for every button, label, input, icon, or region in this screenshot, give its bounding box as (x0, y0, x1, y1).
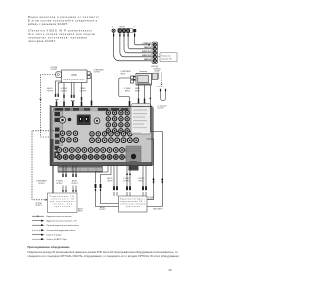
connector labels top (112, 26, 135, 28)
svg-text:S VIDEO: S VIDEO (56, 181, 63, 183)
svg-text:INPUT: INPUT (108, 181, 113, 183)
svg-text:COMPONENT: COMPONENT (121, 71, 131, 73)
svg-text:Тюнер каб.: Тюнер каб. (161, 55, 171, 57)
bottom labels row 1 (36, 180, 78, 185)
TV note box (48, 193, 78, 213)
ring jack C (94, 118, 100, 124)
vcr cable labels (107, 177, 145, 182)
top paragraph text (28, 15, 100, 43)
jacks row B left (60, 138, 77, 142)
svg-text:S VIDEO: S VIDEO (124, 88, 131, 90)
svg-text:COMPONENT: COMPONENT (36, 181, 47, 183)
DVD output labels (47, 87, 87, 92)
svg-text:OUTPUT: OUTPUT (71, 183, 78, 185)
svg-text:приставки: приставки (54, 206, 70, 208)
svg-text:INPUT: INPUT (135, 90, 140, 92)
DVD player box (62, 70, 88, 83)
svg-text:приставка SCART.: приставка SCART. (28, 39, 56, 43)
dashed arrow from scart adaptor (158, 73, 164, 87)
svg-text:Присоединяемое оборудование: Присоединяемое оборудование (28, 245, 71, 249)
digital section column (53, 112, 63, 146)
lower-left edge strip + rects (50, 139, 54, 166)
svg-text:INPUT: INPUT (125, 90, 130, 92)
svg-text:S VIDEO: S VIDEO (61, 88, 68, 90)
panel top dark band (53, 108, 130, 112)
component output label + DVD side tabs (87, 69, 104, 107)
svg-text:OUTPUT: OUTPUT (36, 205, 42, 207)
svg-text:Кабель S видео: Кабель S видео (47, 235, 63, 237)
svg-text:OUTPUT: OUTPUT (123, 181, 130, 183)
component input label + TV side tabs (119, 71, 134, 107)
svg-text:спутник. ТВ: спутник. ТВ (161, 59, 172, 61)
wire row labels (142, 43, 152, 61)
panel foot (58, 166, 103, 173)
svg-text:кабель с разъемом SCART.: кабель с разъемом SCART. (28, 22, 68, 26)
arrow cables into note box (63, 166, 76, 191)
svg-text:COMPONENT: COMPONENT (94, 69, 104, 71)
svg-text:VIDEO INPUT: VIDEO INPUT (153, 209, 163, 211)
svg-text:OUTPUT: OUTPUT (99, 209, 106, 211)
svg-text:Телевизор: Телевизор (139, 71, 147, 73)
input jack column (152, 42, 158, 63)
svg-text:S: S (112, 26, 113, 28)
TV cables into panel (139, 85, 145, 107)
panel bottom band (51, 162, 152, 166)
svg-text:S VIDEO: S VIDEO (138, 178, 145, 180)
svg-text:Видео монитора и разъемов от с: Видео монитора и разъемов от соответст (28, 15, 100, 19)
speaker terminal plate (131, 104, 151, 135)
DVD cables into panel (56, 81, 82, 107)
panel front face (51, 107, 152, 166)
arrow on first wire (149, 44, 151, 46)
svg-text:VIDEO IN: VIDEO IN (144, 47, 152, 49)
svg-text:проигрыватель: проигрыватель (64, 79, 85, 81)
panel left edge (50, 105, 52, 166)
svg-text:INPUT: INPUT (78, 211, 83, 213)
jacks row A right (90, 132, 132, 136)
right foot nub (129, 166, 139, 171)
jacks row A left (60, 131, 77, 135)
svg-text:Видеосигнальные кабели: Видеосигнальные кабели (47, 216, 73, 218)
svg-text:Прямой видеосигнальный кабель: Прямой видеосигнальный кабель (47, 224, 79, 227)
COMPON-SCART adaptor (153, 68, 162, 79)
svg-text:со звуковым: со звуковым (158, 105, 167, 107)
dense jack row 1 (57, 148, 131, 153)
svg-text:COMPON.: COMPON. (153, 68, 161, 70)
RCA cluster grid (106, 111, 129, 133)
svg-text:OUTPUT: OUTPUT (56, 183, 63, 185)
svg-text:кабелем: кабелем (158, 108, 164, 110)
TV input labels (124, 88, 141, 92)
svg-text:Оптический цифровой кабель: Оптический цифровой кабель (47, 229, 76, 232)
scart patch cable (161, 91, 166, 101)
dashed wires from panel optical ports (32, 131, 54, 200)
svg-text:OUTPUT: OUTPUT (80, 90, 87, 92)
thick cable into tv note box (52, 166, 54, 194)
svg-text:Аудиосигнальные кабели L и R: Аудиосигнальные кабели L и R (47, 220, 78, 223)
optical output port + label (51, 66, 62, 78)
jacks row B right (90, 138, 139, 143)
svg-text:(Питается VIDEO IN-Я указатель: (Питается VIDEO IN-Я указательных) (28, 29, 92, 33)
dashed optical wire from DVD down left side (39, 75, 55, 138)
svg-text:Y PB PR: Y PB PR (119, 26, 126, 28)
tuner label box (158, 53, 177, 62)
svg-text:VIDEO IN: VIDEO IN (144, 59, 152, 61)
small jack (68, 118, 72, 122)
right vertical wires from TV (147, 86, 163, 207)
svg-text:приставка: приставка (126, 206, 140, 208)
staircase wires to input column (114, 41, 152, 61)
AC outlets block (77, 115, 91, 126)
svg-text:Подключите выход LR проигрыват: Подключите выход LR проигрывателя лазерн… (28, 250, 179, 254)
big ring jack (59, 117, 65, 123)
TV box (133, 71, 152, 85)
patch cable label (158, 105, 167, 109)
svg-text:S VIDEO: S VIDEO (123, 178, 130, 180)
audio output cable pair (96, 166, 119, 207)
svg-text:OUTPUT: OUTPUT (94, 72, 101, 74)
svg-text:OUTPUT: OUTPUT (148, 199, 154, 201)
vcr cable pairs (114, 166, 146, 197)
svg-text:V: V (134, 26, 135, 28)
svg-text:Кабель SCART 21pin: Кабель SCART 21pin (47, 238, 68, 241)
svg-text:соедините его с выходом OPTICA: соедините его с выходом OPTICAL DIGITAL … (28, 254, 180, 258)
VCR box (119, 196, 148, 212)
svg-text:VIDEO: VIDEO (135, 88, 141, 90)
svg-text:INPUT: INPUT (139, 181, 144, 183)
dense jack row 2 (57, 155, 131, 160)
svg-text:Это часть польза передачи для: Это часть польза передачи для подклю (28, 32, 95, 36)
svg-text:OUTPUT: OUTPUT (51, 69, 58, 71)
svg-text:OUTPUT: OUTPUT (47, 90, 54, 92)
plug stems under jacks (114, 33, 135, 42)
svg-text:OUTPUT: OUTPUT (38, 183, 45, 185)
svg-text:В этом случае используйте соед: В этом случае используйте соединения в (28, 18, 98, 22)
bottom text block (28, 245, 180, 258)
svg-text:S VIDEO IN: S VIDEO IN (142, 43, 151, 45)
composite plug icon (133, 29, 136, 32)
component jack group (118, 28, 133, 32)
svg-text:INPUT: INPUT (121, 73, 126, 75)
svg-text:S VIDEO: S VIDEO (148, 197, 155, 199)
S-video jack icon (112, 29, 115, 32)
svg-text:43: 43 (169, 268, 173, 272)
power block (126, 133, 141, 166)
svg-text:DVD: DVD (71, 74, 76, 77)
